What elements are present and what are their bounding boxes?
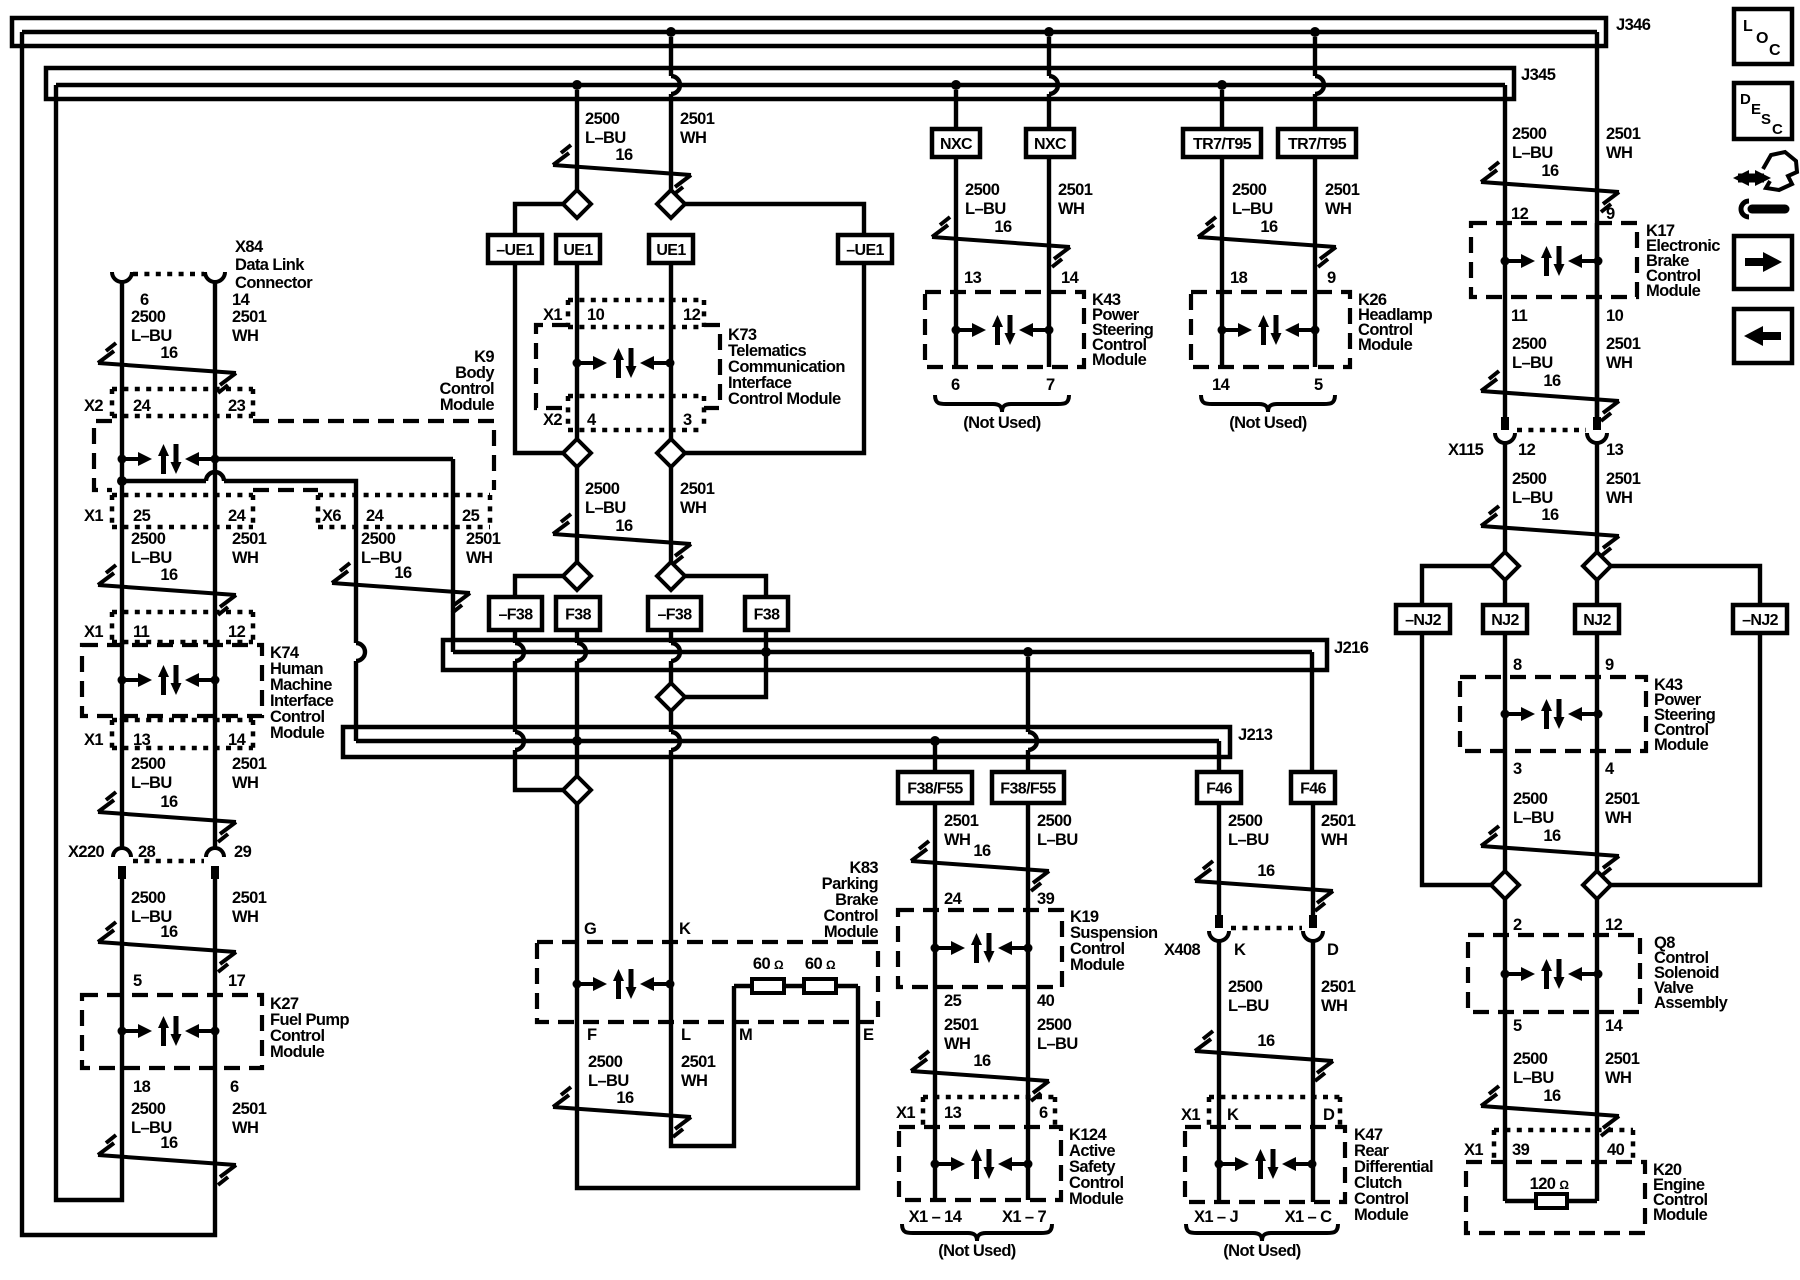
connector F38 right: [745, 597, 788, 630]
wire 2500 L-BU from K83 F looping to pin E branch: [577, 986, 858, 1188]
svg-text:28: 28: [138, 843, 156, 861]
wire 2501 WH from J346 bar down to diamond above UE1 (hops J345 bar): [669, 37, 673, 76]
twisted pair crossover below K73: [553, 514, 691, 564]
svg-text:L–BU: L–BU: [131, 774, 172, 792]
svg-text:WH: WH: [1605, 1069, 1631, 1087]
wire 2500 L-BU from J345 bar to TR7/T95: [1220, 90, 1224, 129]
svg-text:L–BU: L–BU: [588, 1072, 629, 1090]
twisted pair symbol in K26: [1218, 315, 1320, 345]
svg-text:12: 12: [1605, 916, 1623, 934]
svg-text:L–BU: L–BU: [1037, 1035, 1078, 1053]
wire 2501 WH K74 pin 14 down to X220 pin 29: [213, 718, 217, 847]
module K9 Body Control Module (dashed box): [94, 421, 494, 490]
splice diamond above F38 right: [657, 562, 685, 590]
svg-text:2501: 2501: [1606, 470, 1641, 488]
wire NJ2 right down to K43 pin 9: [1595, 633, 1599, 677]
svg-text:TR7/T95: TR7/T95: [1193, 136, 1252, 153]
twisted pair crossover above K26: [1198, 217, 1336, 267]
svg-text:X2: X2: [84, 397, 103, 415]
wire K17 internal right: [1595, 223, 1599, 297]
junction dot TR7 2500 tap at J345 bar: [1217, 80, 1227, 90]
twisted pair symbol in K17: [1501, 246, 1603, 276]
wire UE1 right to K73 X1 pin 12: [669, 263, 673, 330]
module K74 Human Machine Interface Control Module (dashed box): [82, 645, 262, 716]
svg-text:D: D: [1327, 941, 1339, 959]
junction dot at J213 bar for F38/F55 left: [930, 736, 940, 746]
svg-text:–NJ2: –NJ2: [1742, 612, 1779, 629]
svg-text:X6: X6: [322, 507, 341, 525]
brace not-used: [1201, 395, 1335, 412]
twisted pair crossover above K19: [911, 841, 1049, 891]
connector UE1 left: [556, 235, 600, 263]
svg-text:2500: 2500: [1512, 470, 1547, 488]
wire from J213 bar down to F38/F55 left: [933, 745, 937, 772]
svg-text:WH: WH: [1321, 831, 1347, 849]
bus J216 outer rectangle: [443, 640, 1327, 670]
twisted pair crossover above K43: [932, 217, 1070, 267]
svg-text:L–BU: L–BU: [585, 129, 626, 147]
wire F38/F55 right down to K19 pin 39: [1026, 803, 1030, 910]
svg-text:TR7/T95: TR7/T95: [1288, 136, 1347, 153]
svg-text:WH: WH: [232, 549, 258, 567]
svg-text:2501: 2501: [1606, 125, 1641, 143]
svg-text:J216: J216: [1334, 639, 1369, 657]
svg-text:F46: F46: [1206, 781, 1232, 798]
svg-text:WH: WH: [1606, 354, 1632, 372]
wire K26 internal right: [1313, 292, 1317, 367]
splice diamond below K73 left: [563, 439, 591, 467]
svg-text:2500: 2500: [585, 480, 620, 498]
svg-text:NJ2: NJ2: [1491, 612, 1519, 629]
connector X1 of K124 (dotted): [923, 1097, 1055, 1127]
svg-text:2500: 2500: [361, 530, 396, 548]
svg-text:F46: F46: [1300, 781, 1326, 798]
svg-text:X1 – 14: X1 – 14: [909, 1208, 963, 1226]
bus J345 internal bar (2500 bus): [56, 83, 1505, 88]
icon harness arrows and wrench: [1738, 174, 1764, 183]
twisted pair crossover X6 branch: [332, 563, 470, 613]
svg-text:16: 16: [616, 1089, 634, 1107]
twisted pair symbol in K47: [1215, 1149, 1317, 1179]
svg-text:WH: WH: [1321, 997, 1347, 1015]
svg-text:Module: Module: [1354, 1206, 1409, 1224]
svg-text:J346: J346: [1616, 16, 1651, 34]
connector F46 right: [1291, 772, 1335, 803]
connector X115 cup right: [1587, 433, 1607, 443]
connector NJ2 right: [1575, 605, 1619, 633]
wire J345 bar right drop to K17 pin 12 (2500 L-BU): [1503, 85, 1507, 223]
svg-text:–F38: –F38: [498, 607, 533, 624]
svg-text:WH: WH: [1606, 489, 1632, 507]
svg-text:2501: 2501: [1058, 181, 1093, 199]
svg-text:K: K: [1234, 941, 1246, 959]
wire -UE1 left bypass down to lower diamond: [515, 263, 563, 453]
svg-text:13: 13: [1606, 441, 1624, 459]
junction dot 2501 tap at J346 bar: [666, 27, 676, 37]
wire NJ2 left stub: [1503, 580, 1507, 605]
svg-text:2500: 2500: [1513, 1050, 1548, 1068]
svg-text:16: 16: [1543, 1087, 1561, 1105]
connector X115 terminal stub left: [1501, 417, 1509, 430]
wire 2500 L-BU X220 pin 28 down to K27 pin 5: [120, 879, 124, 995]
svg-text:10: 10: [1606, 307, 1624, 325]
wire 2501 from diamond 697 down to K83 pin K (hops J213 bar): [669, 711, 673, 732]
wire 2500 L-BU K74 pin 13 down to X220 pin 28: [120, 718, 124, 847]
splice diamond above NJ2 right: [1583, 552, 1611, 580]
svg-text:16: 16: [394, 564, 412, 582]
svg-text:6: 6: [951, 376, 960, 394]
svg-text:16: 16: [160, 344, 178, 362]
svg-text:16: 16: [1541, 162, 1559, 180]
brace not-used: [1186, 1224, 1338, 1241]
svg-text:16: 16: [1541, 506, 1559, 524]
svg-text:X2: X2: [543, 411, 562, 429]
svg-text:2500: 2500: [131, 889, 166, 907]
wire TR7 right down to K26 pin 9: [1313, 157, 1317, 292]
svg-text:16: 16: [615, 517, 633, 535]
svg-text:2501: 2501: [944, 812, 979, 830]
svg-text:G: G: [584, 920, 596, 938]
svg-text:13: 13: [133, 731, 151, 749]
svg-text:L–BU: L–BU: [1232, 200, 1273, 218]
svg-text:2500: 2500: [588, 1053, 623, 1071]
connector TR7/T95 right: [1278, 129, 1356, 157]
twisted pair symbol in K19: [931, 933, 1033, 963]
svg-text:L–BU: L–BU: [1228, 831, 1269, 849]
svg-text:NJ2: NJ2: [1583, 612, 1611, 629]
connector -NJ2 left (bypass): [1396, 605, 1450, 633]
svg-text:J213: J213: [1238, 726, 1273, 744]
wire -UE1 right bypass down to lower diamond: [685, 263, 864, 453]
wire Q8 internal right: [1595, 935, 1599, 1012]
wire K17 internal left: [1503, 223, 1507, 297]
svg-text:2501: 2501: [232, 1100, 267, 1118]
svg-text:X1: X1: [543, 306, 562, 324]
wire K9 branch 2501 to X6 pin 25: from right wire to x453: [215, 457, 453, 461]
connector X408 cup left: [1209, 931, 1229, 941]
twisted pair crossover above K124: [911, 1051, 1049, 1101]
wire F46 left down to X408 pin K: [1217, 803, 1221, 915]
svg-text:2501: 2501: [1321, 978, 1356, 996]
connector F46 left: [1197, 772, 1241, 803]
twisted pair symbol in Q8: [1501, 959, 1603, 989]
twisted pair symbol in K43 right: [1501, 699, 1603, 729]
svg-text:6: 6: [1039, 1104, 1048, 1122]
svg-text:WH: WH: [680, 129, 706, 147]
svg-text:X84: X84: [235, 238, 264, 256]
svg-text:14: 14: [228, 731, 247, 749]
svg-text:6: 6: [140, 291, 149, 309]
bus J346 splice pack outer rectangle: [12, 18, 1606, 46]
svg-text:Module: Module: [1070, 956, 1125, 974]
twisted pair crossover above K20: [1481, 1086, 1619, 1136]
svg-text:L–BU: L–BU: [1513, 809, 1554, 827]
junction dot on left wire: [117, 476, 127, 486]
module K124 Active Safety Control Module (dashed box): [899, 1127, 1061, 1200]
svg-text:12: 12: [1511, 205, 1529, 223]
svg-text:X115: X115: [1448, 441, 1484, 459]
connector NJ2 left: [1483, 605, 1527, 633]
resistor 60 ohm left: [752, 979, 784, 993]
svg-text:39: 39: [1512, 1141, 1530, 1159]
svg-text:–NJ2: –NJ2: [1405, 612, 1442, 629]
svg-text:16: 16: [160, 566, 178, 584]
wire K43 internal left: [954, 292, 958, 367]
svg-text:WH: WH: [1058, 200, 1084, 218]
connector NXC right: [1026, 129, 1074, 157]
wire K74 internal right: [213, 642, 217, 720]
svg-text:L–BU: L–BU: [965, 200, 1006, 218]
twisted pair crossover above K17: [1481, 162, 1619, 212]
wire J345 bar left drop down left side to K27 pin 18: [56, 85, 122, 1200]
module K73 Telematics Communication Interface Control Module (dashed box): [536, 325, 720, 408]
svg-text:M: M: [739, 1026, 752, 1044]
twisted pair crossover above X408: [1195, 861, 1333, 911]
wire Q8 right stub: [1595, 899, 1599, 935]
svg-text:E: E: [1751, 101, 1761, 118]
svg-text:24: 24: [366, 507, 385, 525]
wire J213 bar left end up to K9 X6 pin 24 (2500 L-BU), hops J216 bar: [354, 527, 358, 643]
svg-text:2501: 2501: [232, 530, 267, 548]
svg-text:L–BU: L–BU: [1512, 489, 1553, 507]
wire K73 X2 pin 3 down to diamond: [669, 396, 673, 439]
resistor 60 ohm right: [804, 979, 836, 993]
twisted pair crossover below K83: [553, 1087, 691, 1137]
svg-text:3: 3: [683, 411, 692, 429]
svg-text:2: 2: [1513, 916, 1522, 934]
bus J216 internal bar: [453, 650, 1312, 655]
svg-text:2501: 2501: [1605, 1050, 1640, 1068]
wire UE1 left to K73 X1 pin 10: [575, 263, 579, 330]
svg-text:16: 16: [1543, 372, 1561, 390]
wire K19 internal right: [1026, 910, 1030, 987]
junction dot NXC 2501 tap at J346 bar: [1044, 27, 1054, 37]
wire -NJ2 right bypass down to lower diamond: [1611, 633, 1760, 885]
svg-text:25: 25: [133, 507, 151, 525]
svg-text:L: L: [1743, 18, 1753, 35]
wire 2500 L-BU K9 X1 pin 25 down to K74 X1 pin 11: [120, 495, 124, 645]
wire branch to -NJ2 right: [1611, 566, 1760, 605]
twisted pair symbol in K43: [952, 315, 1054, 345]
connector -UE1 (bypass) right: [838, 235, 892, 263]
splice diamond above Q8 right: [1583, 871, 1611, 899]
connector F38/F55 left: [898, 772, 972, 803]
wire K43r internal left: [1503, 677, 1507, 751]
junction dot NXC 2500 tap at J345 bar: [951, 80, 961, 90]
twisted pair symbol in K83: [573, 969, 675, 999]
brace not-used: [935, 395, 1069, 412]
wire K83 internal left: [575, 940, 579, 1022]
svg-text:7: 7: [1046, 376, 1055, 394]
svg-text:16: 16: [160, 923, 178, 941]
connector X220 cup right: [206, 848, 224, 857]
svg-text:–UE1: –UE1: [846, 242, 884, 259]
svg-text:Data Link: Data Link: [235, 256, 305, 274]
svg-text:4: 4: [1605, 760, 1615, 778]
wire F38 right option down to J216 bar tap and on to diamond 697: [685, 630, 766, 697]
twisted pair crossover above K47: [1195, 1031, 1333, 1081]
svg-text:2500: 2500: [131, 755, 166, 773]
splice diamond above F38 left: [563, 562, 591, 590]
connector -NJ2 right (bypass): [1733, 605, 1787, 633]
svg-text:25: 25: [462, 507, 480, 525]
svg-text:24: 24: [944, 890, 963, 908]
splice diamond 2500 below J213: [563, 776, 591, 804]
svg-text:29: 29: [234, 843, 252, 861]
connector X408 terminal stub right: [1309, 915, 1317, 928]
module K43 Power Steering Control Module (dashed box): [925, 292, 1084, 367]
svg-text:X1 – J: X1 – J: [1194, 1208, 1239, 1226]
connector -F38 (bypass): [489, 597, 542, 630]
wire NJ2 right stub: [1595, 580, 1599, 605]
wire -F38 right down: hops J216 bar to diamond at 697: [669, 630, 673, 643]
twisted pair symbol in K124: [931, 1149, 1033, 1179]
svg-text:L–BU: L–BU: [1513, 1069, 1554, 1087]
svg-text:S: S: [1761, 111, 1771, 128]
wire 2500 K17 pin 11 down to X115 pin 12: [1503, 297, 1507, 417]
svg-text:C: C: [1772, 121, 1783, 138]
svg-text:2500: 2500: [1228, 812, 1263, 830]
splice diamond below K73 right: [657, 439, 685, 467]
svg-text:L–BU: L–BU: [1512, 354, 1553, 372]
svg-text:X1 – 7: X1 – 7: [1002, 1208, 1047, 1226]
svg-text:3: 3: [1513, 760, 1522, 778]
svg-text:9: 9: [1605, 656, 1614, 674]
svg-text:WH: WH: [1605, 809, 1631, 827]
wire branch to -UE1 left: [515, 204, 563, 235]
icon box DESC: [1734, 83, 1792, 139]
twisted pair symbol in K27: [118, 1016, 220, 1046]
svg-text:16: 16: [1543, 827, 1561, 845]
connector F38 left: [556, 597, 600, 630]
icon box LOC: [1734, 9, 1792, 64]
svg-text:Assembly: Assembly: [1654, 994, 1729, 1012]
twisted pair crossover above X220: [98, 792, 236, 842]
svg-text:10: 10: [587, 306, 605, 324]
svg-text:Module: Module: [1069, 1190, 1124, 1208]
wire 2500 down to second diamond: [575, 467, 579, 562]
twisted pair crossover above X115: [1481, 371, 1619, 421]
svg-text:WH: WH: [1325, 200, 1351, 218]
wire J216 bar right end down to F46 right: [1310, 652, 1314, 772]
wire from J216 bar down to F38/F55 right (hops J213 bar): [1026, 657, 1030, 732]
wire 2501 WH X220 pin 29 down to K27 pin 17: [213, 879, 217, 995]
svg-text:L–BU: L–BU: [1228, 997, 1269, 1015]
svg-text:5: 5: [1314, 376, 1323, 394]
wire K73 X2 pin 4 down to diamond: [575, 396, 579, 439]
svg-text:12: 12: [228, 623, 246, 641]
svg-text:5: 5: [1513, 1017, 1522, 1035]
connector X220 dotted link: [133, 859, 204, 864]
connector -F38 right: [648, 597, 701, 630]
svg-text:60 Ω: 60 Ω: [753, 955, 784, 973]
connector X115 terminal stub right: [1593, 417, 1601, 430]
bus J345 splice pack outer rectangle: [46, 68, 1514, 99]
svg-text:2501: 2501: [1606, 335, 1641, 353]
svg-text:2500: 2500: [1512, 125, 1547, 143]
wire 2501 K43 pin 4 down to diamond: [1595, 751, 1599, 871]
svg-text:X1: X1: [84, 623, 103, 641]
svg-text:X220: X220: [68, 843, 105, 861]
twisted pair crossover below K27: [98, 1135, 236, 1185]
svg-text:E: E: [863, 1026, 874, 1044]
module K20 Engine Control Module (dashed box): [1466, 1162, 1645, 1233]
svg-text:16: 16: [973, 1052, 991, 1070]
splice diamond above NJ2 left: [1491, 552, 1519, 580]
connector X2 of K9 (dotted): [112, 389, 253, 416]
svg-text:(Not Used): (Not Used): [963, 414, 1041, 432]
twisted pair symbol in K73: [573, 348, 675, 378]
wire 2500 K43 pin 3 down to diamond: [1503, 751, 1507, 871]
connector X115 cup left: [1495, 433, 1515, 443]
svg-text:X1 – C: X1 – C: [1285, 1208, 1333, 1226]
svg-text:(Not Used): (Not Used): [1223, 1242, 1301, 1260]
svg-text:16: 16: [1257, 1032, 1275, 1050]
svg-text:2500: 2500: [131, 308, 166, 326]
svg-text:Module: Module: [1653, 1206, 1708, 1224]
bus J346 internal bar (2501 bus): [22, 30, 1597, 35]
svg-text:40: 40: [1037, 992, 1055, 1010]
wire K73 internal right: [669, 330, 673, 396]
svg-text:2500: 2500: [1037, 812, 1072, 830]
svg-text:2500: 2500: [1513, 790, 1548, 808]
module K27 Fuel Pump Control Module (dashed box): [82, 995, 262, 1068]
svg-text:12: 12: [683, 306, 701, 324]
svg-text:11: 11: [133, 623, 150, 641]
wire 2500 L-BU X84 pin 6 down to K9 X2 pin 24: [120, 281, 124, 421]
svg-text:NXC: NXC: [1034, 136, 1067, 153]
connector X1 of K47 (dotted): [1209, 1097, 1340, 1127]
wire -NJ2 left bypass down to lower diamond: [1422, 633, 1491, 885]
junction dot TR7 2501 tap at J346 bar: [1310, 27, 1320, 37]
svg-text:5: 5: [133, 972, 142, 990]
junction dot 2500 tap at J345 bar: [572, 80, 582, 90]
svg-text:WH: WH: [1606, 144, 1632, 162]
svg-text:2501: 2501: [1605, 790, 1640, 808]
connector X1 of K9 (dotted): [112, 495, 253, 527]
svg-text:X1: X1: [1181, 1106, 1200, 1124]
svg-text:WH: WH: [466, 549, 492, 567]
svg-text:L–BU: L–BU: [1037, 831, 1078, 849]
svg-text:60 Ω: 60 Ω: [805, 955, 836, 973]
connector F38/F55 right: [992, 772, 1064, 803]
svg-text:WH: WH: [681, 1072, 707, 1090]
wire 2501 K17 pin 10 down to X115 pin 13: [1595, 297, 1599, 417]
svg-text:18: 18: [133, 1078, 151, 1096]
svg-text:F: F: [587, 1026, 597, 1044]
connector X115 dotted link: [1517, 428, 1586, 433]
svg-text:L–BU: L–BU: [585, 499, 626, 517]
wire Q8 left stub: [1503, 899, 1507, 935]
twisted pair crossover above K9: [98, 343, 236, 393]
svg-text:X1: X1: [1464, 1141, 1483, 1159]
svg-text:2500: 2500: [965, 181, 1000, 199]
svg-text:(Not Used): (Not Used): [1229, 414, 1307, 432]
wire K124 internal right: [1026, 1127, 1030, 1200]
svg-text:12: 12: [1518, 441, 1536, 459]
wire 2500 X408 K down to K47 X1 K: [1217, 940, 1221, 1127]
svg-text:39: 39: [1037, 890, 1055, 908]
svg-text:16: 16: [1257, 862, 1275, 880]
bus J213 outer rectangle: [343, 727, 1230, 757]
connector X220 terminal stub left: [118, 866, 126, 879]
svg-text:8: 8: [1513, 656, 1522, 674]
wire K27 internal left: [120, 995, 124, 1068]
connector NXC left: [932, 129, 980, 157]
wire K26 internal left: [1220, 292, 1224, 367]
connector X220 terminal stub right: [211, 866, 219, 879]
svg-text:14: 14: [1061, 269, 1080, 287]
